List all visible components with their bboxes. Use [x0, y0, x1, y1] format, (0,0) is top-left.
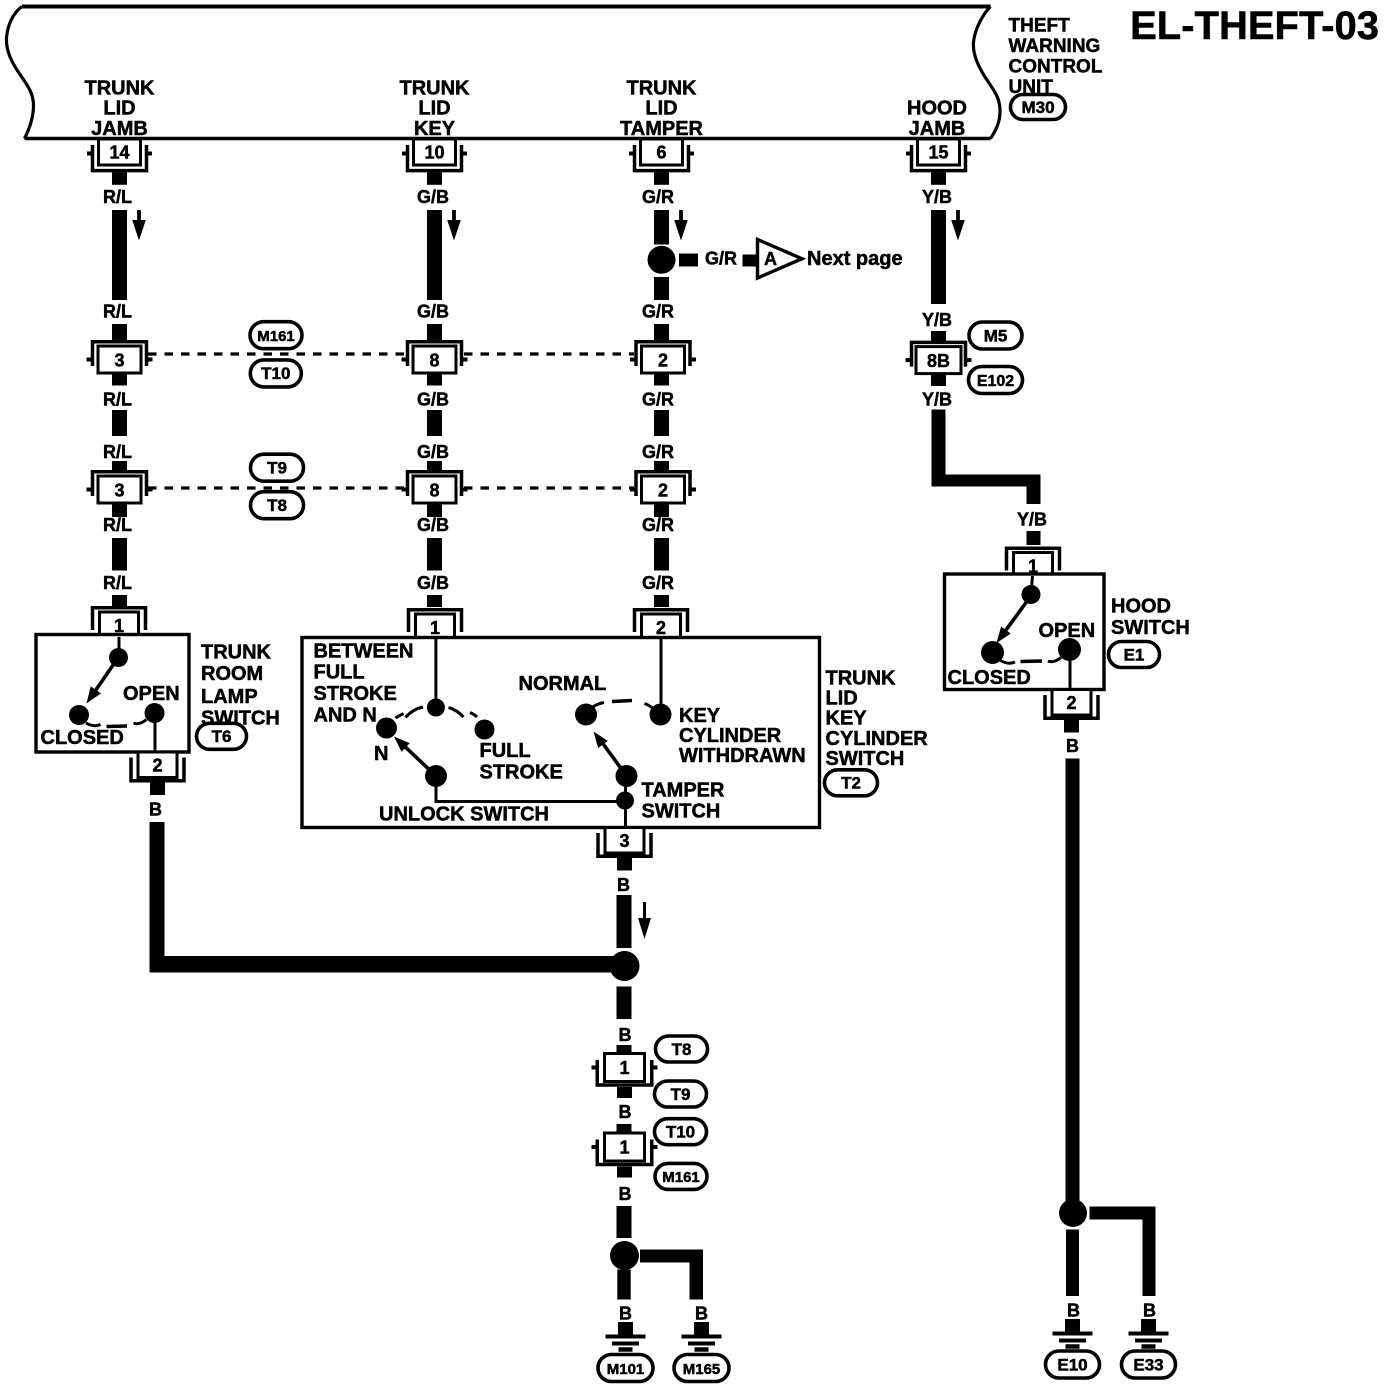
wire label G/B col2 f [417, 573, 449, 593]
connector 3 trunk lid key cylinder switch [598, 828, 651, 871]
svg-text:G/R: G/R [705, 249, 737, 269]
svg-text:B: B [619, 1102, 632, 1122]
wire label G/R col3 d [642, 442, 674, 462]
svg-text:T6: T6 [212, 727, 232, 746]
wire label Y/B col4 d [1017, 510, 1047, 530]
wire B lamp switch down + elbow to junction [150, 822, 625, 973]
wire stub above T8/T9 splice [617, 1045, 632, 1054]
wire stub col1 above lamp switch [112, 595, 127, 607]
label NORMAL [519, 673, 607, 695]
svg-text:8: 8 [429, 351, 439, 371]
branch stub to next page [679, 254, 698, 267]
wire label R/L col1 b [103, 302, 132, 322]
wire label B tamper [617, 875, 630, 895]
lamp switch pin 2 lead [154, 718, 157, 752]
connector terminal 10 [402, 139, 467, 185]
svg-text:10: 10 [424, 143, 444, 163]
wire label G/R col3 a [642, 187, 674, 207]
hood switch CLOSED contact dot [981, 641, 1004, 664]
svg-text:G/B: G/B [417, 442, 449, 462]
svg-text:G/B: G/B [417, 187, 449, 207]
svg-text:Next page: Next page [807, 248, 903, 270]
svg-text:CLOSED: CLOSED [41, 727, 124, 749]
connector 1 T10/M161 splice [592, 1133, 658, 1178]
svg-text:LAMP: LAMP [201, 686, 258, 708]
dashed line row2 left [148, 486, 406, 489]
wire label R/L col1 e [103, 515, 132, 535]
label Next page [807, 248, 903, 270]
label N [374, 743, 388, 765]
title EL-THEFT-03 [1130, 4, 1379, 48]
dashed line row1 right [464, 352, 634, 355]
svg-text:Y/B: Y/B [922, 187, 952, 207]
wire label B ground E10 [1067, 1301, 1080, 1321]
svg-text:G/R: G/R [642, 573, 674, 593]
label OPEN lamp switch [123, 683, 180, 705]
svg-text:B: B [1143, 1301, 1156, 1321]
arrow down col3 [674, 210, 688, 241]
svg-text:CYLINDER: CYLINDER [826, 728, 929, 750]
connector id oval T9 bottom [655, 1081, 707, 1107]
wire stub col2 below row1 [427, 373, 442, 386]
svg-text:M5: M5 [984, 326, 1008, 345]
wire label Y/B col4 b [922, 310, 952, 330]
svg-text:N: N [374, 743, 388, 765]
svg-text:M161: M161 [257, 328, 295, 345]
svg-text:STROKE: STROKE [314, 683, 397, 705]
svg-text:TRUNK: TRUNK [400, 77, 471, 99]
label CLOSED lamp switch [41, 727, 124, 749]
key switch pin 2 lead [660, 639, 663, 705]
svg-text:EL-THEFT-03: EL-THEFT-03 [1130, 4, 1379, 48]
wire B to E10 ground [1066, 1230, 1079, 1297]
connector id oval M161 row1 [250, 322, 302, 349]
svg-text:1: 1 [430, 618, 440, 638]
svg-text:8: 8 [429, 481, 439, 501]
svg-text:CLOSED: CLOSED [948, 667, 1031, 689]
wire stub col1 below row2 [112, 503, 127, 517]
tamper switch KEY CYLINDER WITHDRAWN contact dot [650, 704, 672, 726]
wire stub above T10/M161 splice [617, 1124, 632, 1134]
svg-text:3: 3 [619, 831, 629, 851]
svg-text:HOOD: HOOD [1111, 596, 1171, 618]
svg-text:E1: E1 [1124, 645, 1145, 664]
ground id oval M165 [674, 1355, 729, 1382]
wire label G/R col3 f [642, 573, 674, 593]
connector 2 trunk room lamp switch [131, 752, 184, 795]
svg-text:M161: M161 [662, 1169, 700, 1186]
connector terminal 15 [906, 139, 971, 185]
connector id oval E102 [969, 367, 1023, 394]
svg-text:T8: T8 [267, 496, 287, 515]
lamp switch pivot dot [109, 648, 128, 667]
svg-text:B: B [1066, 736, 1079, 756]
svg-text:G/R: G/R [642, 187, 674, 207]
hood switch throw dash [1021, 659, 1043, 663]
svg-text:R/L: R/L [103, 302, 132, 322]
wire label B ground E33 [1143, 1301, 1156, 1321]
key switch pin 1 lead [434, 639, 437, 701]
svg-text:WITHDRAWN: WITHDRAWN [679, 745, 806, 767]
hood switch open contact hook [1048, 658, 1061, 662]
wire stub col3 above row2 [654, 461, 669, 472]
wire R/L col1 seg3 [112, 538, 127, 571]
svg-text:TRUNK: TRUNK [826, 668, 897, 690]
wire label G/R col3 e [642, 515, 674, 535]
svg-text:SWITCH: SWITCH [642, 801, 721, 823]
wire label G/R col3 b [642, 302, 674, 322]
svg-text:STROKE: STROKE [480, 762, 563, 784]
wire stub col3 above row1 [654, 324, 669, 341]
ground id oval M101 [598, 1355, 653, 1382]
connector id oval M5 [969, 322, 1022, 349]
wire stub col4 above 8B [931, 331, 946, 342]
svg-text:B: B [695, 1304, 708, 1324]
wire label Y/B col4 c [922, 390, 952, 410]
label KEY CYLINDER WITHDRAWN [679, 705, 806, 767]
svg-text:B: B [149, 800, 162, 820]
unlock switch arm [394, 737, 436, 777]
hood switch closed contact hook [1001, 661, 1016, 664]
wire label G/R col3 c [642, 390, 674, 410]
svg-text:Y/B: Y/B [1017, 510, 1047, 530]
svg-text:JAMB: JAMB [909, 118, 966, 140]
svg-text:B: B [619, 1304, 632, 1324]
svg-text:G/B: G/B [417, 573, 449, 593]
connector 1 hood switch [1007, 548, 1060, 579]
svg-text:2: 2 [658, 351, 668, 371]
wire label G/R next page [705, 249, 737, 269]
svg-text:B: B [619, 1025, 632, 1045]
connector id oval T6 [197, 723, 247, 749]
wire G/B col2 seg3 [427, 538, 442, 571]
svg-text:G/B: G/B [417, 515, 449, 535]
wire label G/B col2 c [417, 390, 449, 410]
wire G/R col3 seg2 [654, 410, 669, 436]
svg-text:LID: LID [826, 688, 858, 710]
svg-text:3: 3 [114, 351, 124, 371]
next page connector square [743, 255, 757, 267]
svg-text:R/L: R/L [103, 442, 132, 462]
wire label B bottom3 [619, 1184, 632, 1204]
lamp switch open contact hook [134, 720, 147, 724]
svg-text:T9: T9 [671, 1085, 691, 1104]
wire branch to M165 ground [640, 1250, 703, 1300]
connector 2 hood switch [1045, 690, 1098, 733]
ground symbol E10 [1053, 1319, 1093, 1347]
junction dot col3 next-page branch [648, 246, 676, 274]
connector 2 row1 col3 [630, 342, 696, 373]
svg-text:FULL: FULL [314, 662, 365, 684]
svg-text:R/L: R/L [103, 573, 132, 593]
arrow down tamper B [638, 902, 651, 939]
wire label B bottom1 [619, 1025, 632, 1045]
label TRUNK LID KEY CYLINDER SWITCH (right) [826, 668, 929, 770]
svg-text:Y/B: Y/B [922, 390, 952, 410]
svg-text:M101: M101 [607, 1361, 645, 1378]
connector id oval T10 row1 [250, 360, 301, 387]
svg-text:TRUNK: TRUNK [85, 77, 156, 99]
arrow down col4 [951, 210, 965, 241]
connector id oval T8 bottom [656, 1036, 708, 1062]
svg-text:OPEN: OPEN [1039, 620, 1096, 642]
svg-text:T10: T10 [261, 364, 290, 383]
svg-text:A: A [764, 249, 777, 269]
connector terminal 6 [629, 139, 694, 185]
wire stub col1 below row1 [112, 373, 127, 386]
label FULL STROKE [480, 740, 563, 784]
wire label R/L col1 f [103, 573, 132, 593]
svg-text:2: 2 [152, 756, 162, 776]
wire stub col1 above row1 [112, 324, 127, 341]
wire label B ground M165 [695, 1304, 708, 1324]
label UNLOCK SWITCH [379, 803, 549, 825]
svg-text:LID: LID [418, 98, 450, 120]
wire label B lamp switch [149, 800, 162, 820]
hood switch pin 1 lead [1032, 576, 1033, 588]
tamper unlock junction dot [616, 792, 634, 810]
svg-text:NORMAL: NORMAL [519, 673, 607, 695]
hood switch pivot dot [1022, 585, 1041, 604]
connector id oval T9 row2 [251, 454, 304, 481]
lamp switch arm [87, 663, 115, 704]
svg-text:G/B: G/B [417, 390, 449, 410]
label BETWEEN FULL STROKE AND N [314, 640, 414, 726]
wire R/L col1 seg1 [112, 210, 127, 300]
connector id oval E1 [1109, 642, 1160, 668]
unlock switch output lead [436, 786, 625, 802]
wire B to M101 ground [617, 1270, 631, 1300]
lamp switch OPEN contact dot [145, 703, 165, 723]
dashed line row1 left [148, 352, 406, 355]
label TAMPER SWITCH [642, 780, 726, 823]
junction dot tamper/lamp B [610, 951, 640, 981]
wire stub col2 below row2 [427, 503, 442, 517]
wire label R/L col1 a [103, 187, 132, 207]
lamp switch closed contact hook [86, 723, 101, 726]
next page triangle A [758, 240, 803, 279]
wire label B bottom2 [619, 1102, 632, 1122]
svg-text:TAMPER: TAMPER [620, 118, 704, 140]
svg-text:R/L: R/L [103, 390, 132, 410]
tamper switch arm [594, 732, 627, 777]
connector 3 row2 col1 [87, 472, 153, 503]
svg-text:6: 6 [656, 143, 666, 163]
svg-text:TRUNK: TRUNK [627, 77, 698, 99]
svg-text:2: 2 [656, 618, 666, 638]
wire stub col2 above key switch [427, 595, 442, 607]
wire stub col2 above row2 [427, 461, 442, 472]
label TRUNK LID JAMB [85, 77, 156, 140]
wire label B ground M101 [619, 1304, 632, 1324]
wire stub col3 above key switch [654, 595, 669, 607]
svg-text:T9: T9 [267, 458, 287, 477]
wire stub col1 above row2 [112, 461, 127, 472]
junction dot bottom middle [610, 1241, 639, 1270]
svg-text:G/B: G/B [417, 302, 449, 322]
hood switch E1 box [945, 574, 1105, 690]
connector 1 T8/T9 splice [592, 1054, 658, 1099]
connector 8 row1 col2 [402, 342, 468, 373]
unlock switch arc left [396, 707, 424, 718]
svg-text:15: 15 [928, 143, 948, 163]
tamper switch arc right [645, 704, 654, 710]
svg-text:OPEN: OPEN [123, 683, 180, 705]
theft warning control unit M30 outline (band) [6, 7, 1000, 139]
connector id oval T2 [825, 770, 878, 796]
connector 1 trunk room lamp switch [93, 608, 146, 639]
tamper switch common dot [616, 765, 638, 787]
dashed line row2 right [464, 486, 634, 489]
svg-text:E102: E102 [977, 373, 1014, 390]
wire stub col4 below 8B [931, 374, 946, 386]
tamper switch output lead [624, 776, 627, 827]
hood switch pin 2 lead [1069, 655, 1072, 689]
svg-text:FULL: FULL [480, 740, 531, 762]
svg-text:G/R: G/R [642, 515, 674, 535]
wire label R/L col1 d [103, 442, 132, 462]
ground symbol E33 [1129, 1319, 1169, 1347]
wire G/B col2 seg1 [427, 210, 442, 300]
svg-text:M165: M165 [683, 1361, 721, 1378]
svg-text:WARNING: WARNING [1009, 36, 1101, 57]
wire stub col2 above row1 [427, 324, 442, 341]
tamper switch arc dash [612, 701, 632, 702]
connector id oval T8 row2 [251, 492, 304, 519]
unlock switch FULL STROKE contact dot [475, 720, 495, 740]
svg-text:CONTROL: CONTROL [1009, 57, 1103, 78]
svg-text:8B: 8B [927, 351, 950, 371]
svg-text:BETWEEN: BETWEEN [314, 640, 414, 662]
wire stub col4 above hood switch [1027, 531, 1041, 545]
connector 8 row2 col2 [402, 472, 468, 503]
unlock switch N contact dot [376, 718, 397, 739]
svg-text:2: 2 [658, 481, 668, 501]
svg-text:KEY: KEY [414, 118, 456, 140]
trunk room lamp switch T6 box [36, 635, 189, 753]
svg-text:R/L: R/L [103, 187, 132, 207]
wire label G/B col2 b [417, 302, 449, 322]
wire G/B col2 seg2 [427, 410, 442, 436]
label TRUNK LID KEY [400, 77, 471, 140]
trunk lid key cylinder switch T2 box [302, 638, 820, 828]
wire G/R col3 seg3 [654, 538, 669, 571]
wire label G/B col2 d [417, 442, 449, 462]
wire Y/B col4 elbow [932, 410, 1041, 505]
wire G/R col3 seg1b [654, 277, 669, 300]
svg-text:T8: T8 [672, 1040, 692, 1059]
arrow down col2 [447, 210, 461, 241]
svg-text:AND N: AND N [314, 704, 377, 726]
svg-text:KEY: KEY [679, 705, 721, 727]
connector 2 trunk lid key cylinder switch [635, 610, 688, 641]
svg-text:R/L: R/L [103, 515, 132, 535]
svg-text:Y/B: Y/B [922, 310, 952, 330]
wire B below tamper junction [617, 987, 632, 1020]
svg-text:E10: E10 [1057, 1355, 1087, 1374]
hood switch OPEN contact dot [1058, 638, 1081, 661]
svg-text:LID: LID [103, 98, 135, 120]
svg-text:KEY: KEY [826, 708, 868, 730]
label THEFT WARNING CONTROL UNIT [1009, 16, 1103, 99]
label TRUNK LID TAMPER [620, 77, 704, 140]
svg-text:LID: LID [645, 98, 677, 120]
ground id oval E33 [1122, 1351, 1176, 1378]
wire branch to E33 ground [1090, 1207, 1156, 1297]
connector 8B [906, 342, 972, 373]
svg-text:14: 14 [109, 143, 129, 163]
svg-text:SWITCH: SWITCH [826, 748, 905, 770]
label HOOD JAMB [907, 98, 967, 140]
svg-text:B: B [1067, 1301, 1080, 1321]
connector id oval M161 bottom [655, 1163, 707, 1189]
svg-text:M30: M30 [1021, 98, 1054, 117]
unlock switch common dot [425, 765, 447, 787]
svg-text:UNLOCK SWITCH: UNLOCK SWITCH [379, 803, 549, 825]
wire label G/B col2 e [417, 515, 449, 535]
unlock switch pivot dot [427, 699, 445, 717]
arrow down col1 [132, 210, 146, 241]
unlock switch arc right [449, 708, 478, 718]
wire G/R col3 seg1a [654, 210, 669, 245]
connector 1 trunk lid key cylinder switch [409, 610, 462, 641]
lamp switch throw dash [107, 724, 128, 728]
wire stub col3 below row1 [654, 373, 669, 386]
hood switch arm [997, 601, 1028, 644]
connector id oval T10 bottom [655, 1119, 707, 1145]
connector id oval M30 [1011, 95, 1066, 120]
connector terminal 14 [87, 139, 152, 185]
svg-text:1: 1 [619, 1058, 629, 1078]
wire R/L col1 seg2 [112, 410, 127, 436]
wire B to bottom junction [617, 1206, 632, 1238]
svg-text:3: 3 [114, 481, 124, 501]
junction dot bottom right [1059, 1199, 1087, 1227]
wire label R/L col1 c [103, 390, 132, 410]
svg-text:1: 1 [619, 1138, 629, 1158]
tamper switch NORMAL contact dot [575, 704, 597, 726]
tamper switch arc left [593, 703, 605, 708]
wire Y/B col4 seg1 [931, 210, 946, 304]
label OPEN hood switch [1039, 620, 1096, 642]
label CLOSED hood switch [948, 667, 1031, 689]
ground symbol M101 [606, 1322, 646, 1350]
svg-text:SWITCH: SWITCH [1111, 617, 1190, 639]
svg-text:HOOD: HOOD [907, 98, 967, 120]
wire label G/B col2 a [417, 187, 449, 207]
svg-text:T2: T2 [841, 774, 861, 793]
ground symbol M165 [682, 1322, 722, 1350]
wire B hood switch down [1066, 759, 1080, 1214]
svg-text:2: 2 [1066, 693, 1076, 713]
svg-text:G/R: G/R [642, 302, 674, 322]
wire B tamper down [617, 895, 632, 948]
svg-text:G/R: G/R [642, 390, 674, 410]
wire label Y/B col4 a [922, 187, 952, 207]
svg-text:THEFT: THEFT [1009, 16, 1071, 37]
ground id oval E10 [1046, 1351, 1100, 1378]
svg-text:T10: T10 [666, 1122, 695, 1141]
svg-text:G/R: G/R [642, 442, 674, 462]
connector 2 row2 col3 [630, 472, 696, 503]
lamp switch CLOSED contact dot [69, 705, 89, 725]
connector 3 row1 col1 [87, 342, 153, 373]
svg-text:ROOM: ROOM [201, 663, 263, 685]
lamp switch pin 1 lead [118, 637, 121, 651]
wire stub col3 below row2 [654, 503, 669, 517]
svg-text:TAMPER: TAMPER [642, 780, 726, 802]
wire label B hood switch [1066, 736, 1079, 756]
